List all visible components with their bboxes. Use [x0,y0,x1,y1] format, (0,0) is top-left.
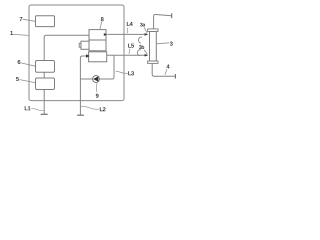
leader for label 4 [165,69,167,75]
label L5 [128,44,131,48]
pump 9 triangle [93,76,98,81]
wire box5 down to terminal L1 [43,90,45,115]
label 3b [139,45,142,49]
box 7 [36,16,55,27]
leader for label 3b [144,50,147,55]
wire L5 to component 3 lower port [107,54,147,56]
leader for label 3a [144,27,147,33]
connector nub [79,43,81,47]
pipe from component 3 bottom to terminal 4 [152,63,175,76]
label L2 [100,107,103,111]
leader squiggle L2 [81,106,99,109]
terminal tick top right [171,13,173,18]
arrowhead at L5 end [145,54,149,57]
leader squiggle L4 [126,28,129,34]
label 3a [140,23,143,27]
terminal tick L1 [41,113,48,115]
leader for label 3 [156,43,169,44]
outer enclosure box [29,5,124,101]
block 8 lower section C [89,52,107,62]
component 3 top flange [148,29,158,32]
component 3 body [150,32,157,62]
wire L4 to component 3 upper port [108,33,148,35]
leader for label 7 [23,19,36,21]
leader for label 5 [20,80,36,83]
wire pump to riser L3 up to line L5 [99,55,114,79]
curved arrow upper port [138,37,142,43]
block 8 middle section B [89,40,106,51]
label 5 [16,77,19,81]
box 5 [36,78,55,90]
connector tab on block 8 left [81,41,89,49]
label 8 [101,17,104,21]
arrowhead at L4 end [145,33,149,36]
wire from vertical to pump 9 [80,78,92,80]
arrow into section C [86,54,90,57]
leader squiggle L3 from riser [116,71,128,73]
label 6 [18,60,21,64]
box 6 [36,61,55,73]
leader squiggle L1 [31,108,43,110]
leader for label 8 [100,22,102,30]
block 8 upper section A [89,30,106,40]
label L4 [127,22,130,26]
label 1 [10,31,13,35]
arrow out of section A right edge [104,33,108,36]
wire from node to block 8 top-left, with corner down to box 6 [44,35,89,60]
terminal tick L2 [77,114,84,116]
label 4 [166,65,169,69]
component 3 bottom flange [148,61,158,63]
leader for label 9 [95,83,98,92]
label 3 [170,42,173,46]
curved arrow lower port [137,50,141,56]
label 7 [20,17,23,21]
wire into section C with corner from below [80,56,88,115]
label L1 [25,106,28,110]
terminal tick bottom right [174,74,176,79]
pump 9 circle [93,76,100,83]
leader squiggle L5 [129,49,130,54]
leader for label 6 [21,63,35,66]
wire box6 to box5 [43,72,45,78]
label 9 [96,94,99,98]
leader for label 1 [13,34,29,35]
pipe from component 3 top to terminal [154,14,172,28]
label L3 [128,71,131,75]
